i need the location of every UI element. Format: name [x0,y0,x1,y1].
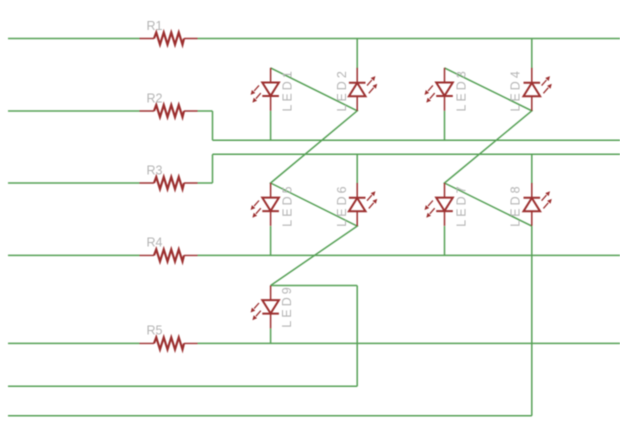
svg-text:LED9: LED9 [280,284,294,327]
svg-text:LED7: LED7 [454,183,468,226]
svg-text:LED2: LED2 [335,68,349,111]
svg-text:LED1: LED1 [281,68,295,111]
svg-text:R3: R3 [147,163,163,177]
svg-text:R4: R4 [147,236,163,250]
svg-text:LED8: LED8 [509,183,523,226]
svg-text:R2: R2 [147,91,163,105]
svg-text:R1: R1 [147,19,163,33]
svg-text:LED3: LED3 [454,68,468,111]
svg-text:LED5: LED5 [281,183,295,226]
svg-text:R5: R5 [147,324,163,338]
svg-text:LED6: LED6 [335,183,349,226]
svg-text:LED4: LED4 [509,68,523,111]
